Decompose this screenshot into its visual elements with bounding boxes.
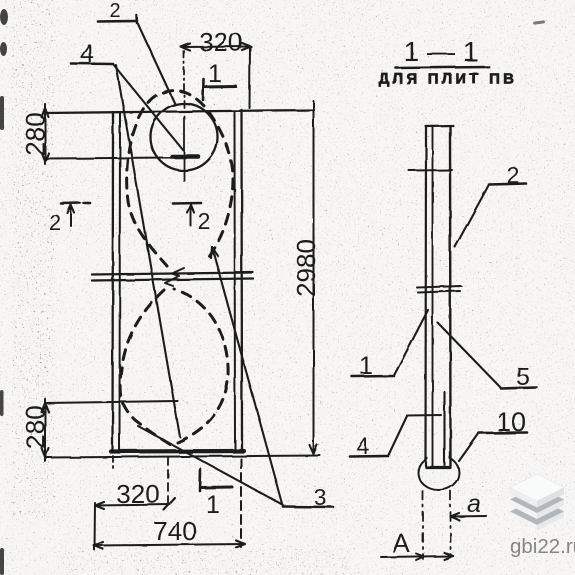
svg-text:3: 3 (314, 484, 327, 510)
plan: panel right edge inner (234, 111, 237, 452)
label 3 leader with arrow (212, 247, 283, 506)
plan: joint break mark (172, 268, 184, 276)
svg-text:2: 2 (507, 162, 520, 188)
svg-text:2980: 2980 (291, 239, 321, 297)
plan: panel top edge line (45, 110, 314, 113)
section: level tick line (409, 169, 452, 172)
dimension 280 bottom arrows (42, 403, 49, 412)
dimension 280 bottom extension line (45, 401, 178, 403)
label 4 underline (71, 62, 113, 65)
section mark 1 bottom horizontal (202, 486, 232, 490)
svg-text:320: 320 (199, 27, 242, 57)
section mark 2 left arrow (70, 205, 72, 226)
upper dashed lifting loop (127, 91, 233, 266)
section: bar top cap (426, 124, 454, 127)
dimension 320 top line (181, 46, 251, 49)
section label 10 underline and leader (479, 431, 527, 434)
section mark 2 right underline (173, 202, 201, 205)
svg-text:ДЛЯ ПЛИТ ПВ: ДЛЯ ПЛИТ ПВ (379, 71, 517, 88)
svg-text:1: 1 (359, 352, 373, 380)
dimension A line and arrows (381, 556, 453, 557)
section: bar bottom cap (427, 466, 451, 469)
section label 4 underline and leader (350, 455, 388, 458)
dimension 280 top vertical line (44, 104, 46, 164)
svg-text:a: a (467, 490, 481, 518)
svg-text:740: 740 (153, 516, 196, 546)
svg-text:A: A (392, 528, 410, 558)
dimension 280 top extension line (45, 158, 172, 159)
leader from section mark 2 to hole (138, 24, 175, 104)
svg-text:1: 1 (208, 60, 222, 88)
section mark 2 top underline (98, 20, 136, 23)
label 4 leader to circle (113, 64, 183, 150)
section mark 1 top vertical (202, 79, 205, 100)
section mark 2 top tick (135, 15, 138, 23)
svg-text:2: 2 (109, 0, 120, 22)
dimension 740 arrows (94, 542, 103, 549)
plan: panel left edge inner (119, 113, 122, 452)
plan: loop anchor thick dash (172, 154, 198, 159)
plan: horizontal joint lower line (92, 279, 253, 281)
dimension a line and arrow (451, 515, 487, 518)
section mark 1 bottom vertical (199, 469, 202, 491)
svg-text:4: 4 (80, 40, 94, 68)
dimension 320 bottom right tick (164, 498, 175, 510)
section: bar right inner strand (443, 392, 445, 465)
section mark 2 left underline (61, 202, 80, 205)
section label 2 underline and leader (489, 184, 526, 185)
lower dashed lifting loop (120, 289, 228, 445)
svg-text:gbi22.ru: gbi22.ru (510, 535, 575, 558)
section: joint marks (417, 286, 461, 288)
dimension 2980 vertical line (313, 101, 315, 455)
svg-text:5: 5 (516, 363, 530, 391)
svg-text:1: 1 (206, 491, 220, 519)
logo slab 3 (bottom) (510, 498, 564, 525)
svg-text:1 — 1: 1 — 1 (404, 36, 479, 67)
dimension 320 bottom extensions (112, 456, 114, 468)
svg-text:280: 280 (20, 112, 50, 155)
label 3 leader to lower loop (138, 426, 283, 505)
plan: horizontal joint upper line (92, 273, 253, 275)
dimension 320 top left extension dash-dot (183, 51, 185, 110)
dimension 320 bottom line (95, 505, 170, 506)
stray mark top right (533, 20, 545, 25)
svg-text:320: 320 (116, 479, 159, 509)
logo slab 1 (top) (510, 474, 564, 501)
section: right dash-dot extension below (450, 491, 452, 557)
section title underline (396, 67, 489, 68)
svg-text:4: 4 (357, 433, 370, 459)
section mark 2 right arrow (190, 205, 192, 226)
scanner edge blobs left (0, 9, 8, 575)
dimension 320 top arrows (181, 44, 190, 51)
dimension 740 right extension dashed (240, 459, 242, 547)
plan: hole vertical axis (183, 116, 185, 181)
plan: panel left edge outer (111, 112, 114, 452)
plan: bottom extension line (45, 456, 320, 458)
plan: hole circle (151, 104, 218, 171)
plan: panel right edge outer (240, 110, 243, 452)
label 4 long leader to lower loop (116, 65, 180, 437)
dimension 280 top arrows (42, 108, 49, 117)
section: bar left outer line (424, 126, 427, 466)
dimension 2980 bottom arrow (310, 445, 318, 454)
dimension 740 line (94, 544, 245, 546)
section: left dash-dot extension below (422, 491, 424, 559)
dimension 740 left extension (94, 503, 97, 550)
white mask over bar interior (428, 440, 450, 466)
svg-text:2: 2 (49, 210, 61, 235)
section mark 2 left extra dash (84, 202, 91, 205)
section: detail circle 10 (418, 455, 459, 490)
label 3 underline (283, 505, 333, 508)
section label 5 underline and leader (501, 388, 537, 389)
section label 1 underline and leader (352, 375, 394, 378)
plan: panel bottom edge (111, 449, 244, 454)
logo slab 2 (middle) (510, 486, 564, 513)
svg-text:10: 10 (496, 407, 526, 437)
svg-text:280: 280 (20, 405, 50, 448)
dimension 320 bottom left arrow (95, 502, 104, 509)
dimension 280 bottom vertical line (44, 399, 46, 461)
section mark 1 top horizontal (204, 85, 236, 89)
section: bar left inner line (432, 127, 434, 466)
section: bar right outer line (449, 126, 452, 466)
svg-text:2: 2 (198, 208, 211, 234)
dimension 320 top right extension (249, 48, 252, 108)
